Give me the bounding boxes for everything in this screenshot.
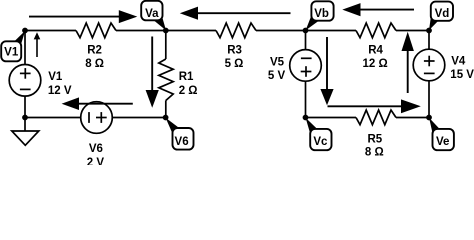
wire V4 bottom lead — [428, 81, 430, 118]
current arrow left above R4 — [342, 3, 414, 16]
node top-left V1 — [22, 28, 28, 34]
svg-text:5 Ω: 5 Ω — [225, 58, 244, 70]
current arrow left above V6 — [62, 97, 133, 110]
svg-text:R4: R4 — [368, 44, 383, 56]
svg-text:12 V: 12 V — [48, 85, 72, 97]
node V6 — [163, 115, 169, 121]
svg-text:Ve: Ve — [436, 136, 449, 148]
svg-text:5 V: 5 V — [268, 70, 286, 82]
current arrow down beside R1 — [146, 37, 159, 108]
wire V5 top lead — [305, 31, 307, 50]
node label Vb — [306, 1, 334, 30]
current arrow right above R2 — [29, 10, 137, 23]
voltage source V5 — [290, 50, 322, 82]
svg-text:Vd: Vd — [435, 8, 450, 20]
wire top rail segment R3 to R4 — [256, 30, 356, 32]
wire V1 top lead — [24, 31, 26, 65]
current arrow down below Vb — [320, 37, 333, 105]
resistor R3 — [216, 23, 256, 38]
node Vd — [426, 28, 432, 34]
node label Ve — [429, 118, 454, 150]
node Va — [163, 28, 169, 34]
node label V6 — [166, 118, 194, 150]
wire bottom-left rail ground to V6 — [25, 117, 81, 119]
voltage source V4 — [413, 49, 445, 81]
svg-text:V5: V5 — [270, 56, 285, 68]
svg-text:V6: V6 — [175, 136, 189, 148]
voltage source V1 — [9, 65, 41, 97]
svg-text:12 Ω: 12 Ω — [362, 58, 387, 70]
current arrow up beside V4 — [402, 32, 414, 93]
wire bottom-right rail Vc to R5 — [306, 117, 357, 119]
wire V1 bottom lead — [24, 96, 26, 117]
node Ve — [426, 115, 432, 121]
svg-text:2 V: 2 V — [87, 157, 105, 165]
resistor R1 — [159, 59, 173, 101]
svg-text:2 Ω: 2 Ω — [179, 85, 198, 97]
svg-text:R5: R5 — [367, 134, 382, 146]
svg-text:R1: R1 — [179, 71, 194, 83]
svg-text:V1: V1 — [48, 71, 63, 83]
svg-text:R3: R3 — [227, 44, 242, 56]
node Vc — [303, 115, 309, 121]
resistor R2 — [76, 23, 116, 38]
wire top rail segment node1 to R2 — [25, 30, 76, 32]
node label Vc — [306, 118, 332, 150]
svg-text:Va: Va — [145, 8, 159, 20]
svg-text:Vc: Vc — [313, 136, 328, 148]
wire R1 bottom lead — [165, 101, 167, 118]
wire V5 bottom lead — [305, 81, 307, 117]
svg-text:8 Ω: 8 Ω — [365, 147, 384, 159]
node Vb — [303, 28, 309, 34]
wire V4 top lead — [428, 31, 430, 50]
node ground junction — [22, 115, 28, 121]
wire bottom-left rail V6 to node V6 — [112, 117, 165, 119]
ground — [12, 118, 39, 146]
node label Vd — [429, 2, 453, 31]
resistor R4 — [356, 23, 396, 38]
svg-text:Vb: Vb — [314, 8, 329, 20]
current arrow right above R5 — [328, 99, 421, 113]
node label V1 — [1, 31, 25, 62]
node label Va — [141, 1, 166, 31]
svg-text:15 V: 15 V — [450, 69, 474, 81]
wire top rail segment R4 to node Vd — [396, 30, 429, 32]
resistor R5 — [356, 110, 396, 125]
svg-text:V6: V6 — [89, 143, 103, 155]
svg-text:V4: V4 — [451, 55, 466, 67]
wire R1 top lead — [165, 31, 167, 60]
current arrow up at V1 — [34, 32, 41, 57]
voltage source V6 — [81, 102, 113, 134]
svg-text:V1: V1 — [4, 46, 19, 58]
wire bottom-right rail R5 to Ve — [396, 117, 429, 119]
current arrow left above R3 — [180, 7, 291, 20]
svg-text:8 Ω: 8 Ω — [85, 58, 104, 70]
svg-text:R2: R2 — [87, 44, 102, 56]
wire top rail segment R2 to R3 — [116, 30, 216, 32]
